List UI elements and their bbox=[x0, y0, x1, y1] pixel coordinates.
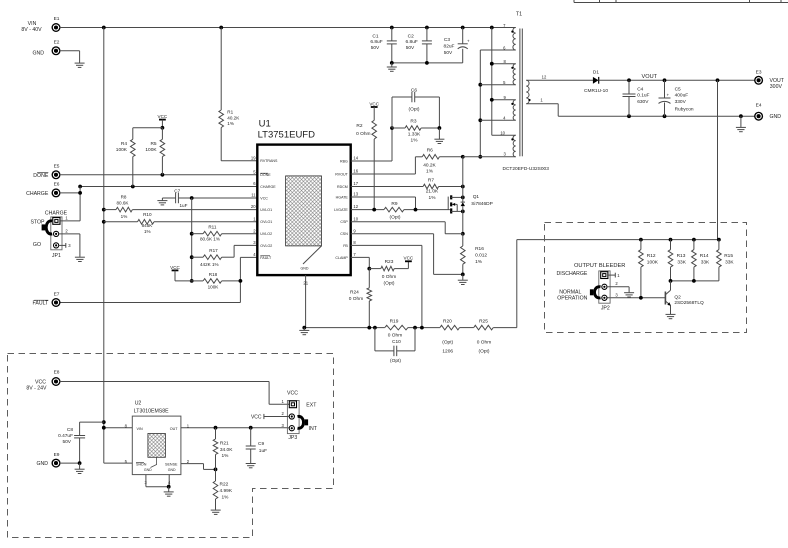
svg-text:50V: 50V bbox=[371, 45, 380, 51]
wire VIN rail bbox=[59, 26, 515, 30]
svg-text:6.8uF: 6.8uF bbox=[370, 39, 382, 45]
VCC symbol (R2) bbox=[369, 101, 379, 120]
svg-text:VCC: VCC bbox=[404, 256, 414, 261]
wire CSP jog bbox=[351, 222, 463, 234]
terminal E8 bbox=[26, 370, 60, 392]
svg-text:VCC: VCC bbox=[170, 265, 180, 270]
svg-text:EXT: EXT bbox=[306, 402, 317, 408]
resistor R6 bbox=[415, 148, 464, 175]
svg-text:2SD2568TLQ: 2SD2568TLQ bbox=[674, 300, 704, 306]
jumper shunt JP2 (pins 2-3) bbox=[590, 287, 601, 298]
svg-text:40.2K: 40.2K bbox=[227, 115, 240, 120]
jumper shunt JP3 (pins 2-3) bbox=[298, 416, 309, 428]
svg-text:VCC: VCC bbox=[251, 414, 262, 420]
svg-text:R19: R19 bbox=[390, 318, 399, 324]
resistor R16 bbox=[461, 234, 488, 276]
svg-text:SHDN: SHDN bbox=[136, 462, 147, 466]
resistor R8 bbox=[104, 194, 257, 219]
svg-text:VIN: VIN bbox=[137, 427, 143, 431]
capacitor C4 bbox=[623, 80, 650, 116]
ground (E2) bbox=[75, 63, 85, 67]
svg-text:JP3: JP3 bbox=[288, 435, 297, 441]
svg-text:R17: R17 bbox=[209, 248, 218, 253]
wire Q1 body diode and source bbox=[461, 197, 465, 235]
svg-text:VCC: VCC bbox=[260, 196, 268, 200]
wire bleeder bottom tie bbox=[669, 279, 719, 283]
svg-text:0 Ohm: 0 Ohm bbox=[477, 339, 491, 345]
resistor R25 bbox=[474, 318, 494, 354]
svg-text:OUTPUT BLEEDER: OUTPUT BLEEDER bbox=[574, 263, 625, 269]
svg-text:50V: 50V bbox=[444, 50, 453, 56]
svg-text:R1: R1 bbox=[227, 110, 233, 115]
capacitor C8 bbox=[58, 422, 104, 463]
ground (Q2) bbox=[666, 314, 676, 318]
svg-text:C2: C2 bbox=[408, 34, 414, 40]
U1 thermal pad bbox=[286, 176, 322, 271]
svg-text:0.1uF: 0.1uF bbox=[637, 93, 649, 99]
U1 right pin labels bbox=[334, 156, 359, 260]
svg-text:0 Ohm: 0 Ohm bbox=[356, 131, 370, 137]
svg-text:FAULT: FAULT bbox=[260, 256, 272, 260]
svg-text:CMR1U-10: CMR1U-10 bbox=[584, 88, 608, 94]
ground (JP1 pin2) bbox=[75, 257, 85, 261]
svg-text:R22: R22 bbox=[220, 482, 229, 488]
svg-text:Q2: Q2 bbox=[674, 295, 681, 301]
svg-text:GO: GO bbox=[33, 242, 41, 248]
svg-text:(Opt): (Opt) bbox=[384, 281, 395, 287]
jumper JP1 bbox=[30, 210, 67, 259]
wire bottom GND rail bbox=[302, 326, 516, 330]
op-amp U1 LT3751EUFD body bbox=[257, 119, 350, 276]
JP3 pin number labels bbox=[282, 399, 285, 428]
svg-text:0 Ohm: 0 Ohm bbox=[388, 333, 402, 339]
svg-text:E2: E2 bbox=[54, 40, 60, 46]
wire VIN vertical feed bbox=[102, 28, 132, 464]
svg-text:R11: R11 bbox=[208, 224, 217, 229]
ground (R16) bbox=[458, 274, 468, 284]
wire VOUT drop to bleeder bbox=[717, 80, 719, 239]
resistor R22 bbox=[213, 469, 233, 510]
svg-text:CSP: CSP bbox=[340, 220, 348, 224]
svg-text:R23: R23 bbox=[385, 259, 394, 265]
wire input caps bottom rail bbox=[390, 61, 463, 65]
svg-text:R4: R4 bbox=[121, 141, 127, 147]
svg-text:R5: R5 bbox=[150, 141, 156, 147]
wire FB drop bbox=[351, 245, 422, 327]
wire pullup top bbox=[133, 126, 165, 130]
ground (E4 rail) bbox=[736, 116, 746, 132]
svg-text:VCC: VCC bbox=[287, 391, 298, 397]
svg-text:E3: E3 bbox=[756, 69, 762, 75]
svg-text:C6: C6 bbox=[411, 87, 417, 93]
transistor Q2 bbox=[665, 281, 704, 314]
svg-text:14: 14 bbox=[353, 156, 358, 161]
svg-text:DONE: DONE bbox=[260, 173, 271, 177]
svg-text:16: 16 bbox=[353, 169, 358, 174]
svg-text:DCT20EFD-U32S003: DCT20EFD-U32S003 bbox=[503, 166, 550, 172]
resistor R10 bbox=[104, 212, 257, 234]
svg-text:C4: C4 bbox=[637, 87, 643, 93]
svg-text:0 Ohm: 0 Ohm bbox=[349, 296, 363, 302]
svg-text:Q1: Q1 bbox=[473, 194, 480, 200]
svg-text:LT3010EMS8E: LT3010EMS8E bbox=[134, 409, 169, 415]
wire CLAMP bbox=[351, 257, 371, 270]
wire JP1 pin1 bbox=[60, 216, 80, 221]
svg-text:442K 1%: 442K 1% bbox=[200, 262, 219, 267]
terminal E9 bbox=[36, 452, 60, 468]
svg-text:845K: 845K bbox=[142, 223, 154, 228]
resistor R2 bbox=[356, 120, 376, 209]
wire JP1 pin2 to ground bbox=[59, 229, 80, 257]
svg-text:UVLO1: UVLO1 bbox=[260, 208, 272, 212]
svg-text:11: 11 bbox=[251, 193, 256, 198]
wire DONE net bbox=[59, 173, 257, 177]
svg-text:JP2: JP2 bbox=[601, 306, 610, 312]
svg-text:E9: E9 bbox=[54, 452, 60, 458]
wire FAULT net bbox=[59, 257, 257, 302]
svg-text:R2: R2 bbox=[356, 123, 362, 129]
resistor R15 bbox=[717, 240, 735, 281]
svg-text:R3: R3 bbox=[410, 119, 416, 125]
svg-text:D1: D1 bbox=[593, 69, 599, 75]
svg-text:GND: GND bbox=[301, 267, 309, 271]
svg-text:40.2K: 40.2K bbox=[423, 163, 436, 169]
svg-text:C10: C10 bbox=[392, 339, 401, 345]
terminal E7 bbox=[33, 291, 61, 307]
svg-text:13: 13 bbox=[353, 192, 358, 197]
svg-text:RVTRANS: RVTRANS bbox=[260, 159, 278, 163]
svg-text:R9: R9 bbox=[391, 201, 397, 207]
diode D1 CMR1U-10 bbox=[584, 69, 608, 94]
svg-text:1%: 1% bbox=[475, 259, 483, 265]
wire JP2 pin2 to ground bbox=[607, 281, 629, 292]
svg-text:R20: R20 bbox=[443, 318, 452, 324]
resistor R11 bbox=[192, 224, 258, 241]
svg-text:OVLO2: OVLO2 bbox=[260, 244, 272, 248]
svg-text:300V: 300V bbox=[770, 84, 783, 90]
svg-text:21: 21 bbox=[303, 280, 308, 285]
output bleeder dashed box bbox=[545, 223, 747, 333]
svg-text:CHARGE: CHARGE bbox=[260, 185, 276, 189]
resistor R24 bbox=[349, 269, 372, 328]
wire U2 SENSE jog bbox=[181, 464, 218, 472]
svg-text:LVGATE: LVGATE bbox=[334, 208, 348, 212]
svg-text:E8: E8 bbox=[54, 370, 60, 376]
svg-text:C7: C7 bbox=[174, 188, 180, 193]
svg-text:1%: 1% bbox=[411, 138, 419, 144]
resistor R14 bbox=[692, 240, 710, 281]
svg-text:VCC: VCC bbox=[369, 101, 379, 106]
ground (C7) bbox=[157, 198, 167, 205]
capacitor C5 bbox=[659, 80, 694, 116]
svg-text:1uF: 1uF bbox=[259, 448, 267, 454]
svg-text:(Opt): (Opt) bbox=[390, 358, 401, 364]
svg-text:DISCHARGE: DISCHARGE bbox=[557, 271, 588, 277]
transformer T1 windings and core bbox=[500, 12, 549, 173]
wire Q2 base row bbox=[607, 296, 666, 300]
svg-text:10: 10 bbox=[500, 131, 505, 136]
capacitor C2 bbox=[406, 28, 432, 63]
svg-text:R7: R7 bbox=[428, 178, 434, 184]
U1 left pin labels bbox=[251, 155, 278, 259]
svg-text:100K: 100K bbox=[145, 147, 157, 153]
svg-text:R21: R21 bbox=[220, 440, 229, 446]
svg-text:(Opt): (Opt) bbox=[479, 348, 490, 354]
svg-text:INT: INT bbox=[309, 426, 318, 432]
svg-text:UVLO2: UVLO2 bbox=[260, 232, 272, 236]
svg-text:Rubycon: Rubycon bbox=[675, 107, 694, 113]
svg-text:33K: 33K bbox=[677, 260, 686, 266]
svg-text:C5: C5 bbox=[675, 87, 681, 93]
wire bleeder top node bbox=[639, 238, 721, 242]
svg-text:21.0K: 21.0K bbox=[426, 188, 439, 194]
resistor R12 bbox=[639, 240, 659, 298]
wire divider riser to bleeder bbox=[517, 240, 719, 328]
wire output GND rail bbox=[558, 114, 755, 118]
jumper JP3 bbox=[287, 391, 318, 441]
terminal E6 bbox=[26, 181, 60, 197]
jumper shunt JP1 (pins 1-2) bbox=[42, 221, 53, 234]
svg-text:OVLO1: OVLO1 bbox=[260, 220, 272, 224]
wire JP1 pin3 stub bbox=[59, 243, 72, 248]
svg-text:82uF: 82uF bbox=[444, 44, 455, 50]
ground (input caps) bbox=[387, 63, 397, 71]
svg-text:1206: 1206 bbox=[442, 348, 453, 354]
svg-text:JP1: JP1 bbox=[52, 253, 61, 259]
regulator U2 LT3010EMS8E body bbox=[132, 401, 181, 475]
svg-text:0 Ohm: 0 Ohm bbox=[382, 274, 396, 280]
svg-text:GND: GND bbox=[144, 468, 152, 472]
wire CHARGE net bbox=[59, 185, 257, 221]
svg-text:C8: C8 bbox=[67, 427, 73, 433]
svg-text:R25: R25 bbox=[479, 318, 488, 324]
svg-text:80.6K 1%: 80.6K 1% bbox=[200, 236, 220, 241]
terminal E3 bbox=[754, 69, 785, 90]
resistor R23 bbox=[369, 259, 408, 287]
capacitor C6 bbox=[392, 87, 439, 128]
svg-text:80.6K: 80.6K bbox=[116, 201, 129, 206]
svg-text:4.99K: 4.99K bbox=[220, 488, 233, 494]
svg-text:17: 17 bbox=[353, 181, 358, 186]
svg-text:100K: 100K bbox=[116, 147, 128, 153]
resistor R1 bbox=[219, 28, 257, 161]
terminal E1 bbox=[21, 16, 60, 33]
resistor R20 bbox=[440, 318, 460, 354]
resistor R18 bbox=[192, 272, 241, 290]
svg-text:R15: R15 bbox=[724, 253, 733, 259]
wire CSN jog bbox=[351, 234, 463, 275]
svg-text:0.47uF: 0.47uF bbox=[58, 433, 73, 439]
wire Q1 drain bbox=[462, 157, 464, 198]
resistor R3 bbox=[392, 119, 441, 144]
svg-text:50V: 50V bbox=[62, 439, 71, 445]
svg-text:RBG: RBG bbox=[340, 159, 348, 163]
resistor R9 bbox=[351, 201, 450, 220]
svg-text:400uF: 400uF bbox=[675, 93, 689, 99]
svg-text:R12: R12 bbox=[647, 253, 656, 259]
svg-text:LT3751EUFD: LT3751EUFD bbox=[258, 130, 316, 141]
svg-text:33K: 33K bbox=[725, 260, 734, 266]
svg-text:SENSE: SENSE bbox=[165, 462, 178, 466]
svg-text:GND: GND bbox=[770, 114, 782, 120]
wire E9 row bbox=[59, 461, 81, 465]
ground (U2) bbox=[164, 487, 174, 497]
svg-text:R18: R18 bbox=[209, 272, 218, 277]
wire VOUT rail bbox=[599, 74, 756, 82]
wire RBG to R3 bbox=[351, 126, 394, 161]
svg-text:1%: 1% bbox=[227, 121, 234, 126]
svg-text:GND: GND bbox=[36, 461, 48, 467]
svg-text:OUT: OUT bbox=[170, 427, 179, 431]
wire VCC pin 11 bbox=[178, 196, 257, 200]
wire JP3 pin2 VCC tap bbox=[251, 414, 289, 421]
svg-text:FAULT: FAULT bbox=[33, 301, 50, 307]
VCC regulator dashed box bbox=[8, 354, 334, 538]
svg-text:VOUT: VOUT bbox=[642, 74, 658, 80]
resistor R13 bbox=[668, 240, 687, 281]
svg-text:T1: T1 bbox=[516, 12, 522, 18]
svg-text:1%: 1% bbox=[222, 453, 230, 459]
wire E8 to JP3 EXT bbox=[59, 382, 289, 405]
svg-text:0.012: 0.012 bbox=[475, 253, 487, 259]
ground (R3) bbox=[434, 128, 444, 144]
svg-text:330V: 330V bbox=[675, 99, 687, 105]
svg-text:GND: GND bbox=[168, 468, 176, 472]
ground (U1 GND rail) bbox=[299, 328, 309, 335]
capacitor C10 bbox=[375, 328, 415, 364]
capacitor C1 bbox=[370, 28, 396, 63]
svg-text:HGATE: HGATE bbox=[336, 195, 349, 199]
svg-text:1uF: 1uF bbox=[180, 203, 188, 208]
svg-text:20: 20 bbox=[251, 204, 256, 209]
transformer T1 primary leads bbox=[463, 28, 516, 159]
ground (R22) bbox=[211, 510, 221, 514]
svg-text:RDCM: RDCM bbox=[337, 185, 348, 189]
svg-text:1.33K: 1.33K bbox=[408, 131, 421, 137]
svg-text:RVOUT: RVOUT bbox=[335, 172, 348, 176]
svg-text:CSN: CSN bbox=[340, 232, 348, 236]
svg-text:(Opt): (Opt) bbox=[442, 339, 453, 345]
svg-text:CHARGE: CHARGE bbox=[26, 191, 49, 197]
svg-text:12: 12 bbox=[542, 74, 547, 79]
resistor R7 bbox=[351, 178, 465, 201]
wire E2 to ground bbox=[59, 51, 79, 63]
svg-text:R24: R24 bbox=[350, 289, 359, 295]
resistor R19 bbox=[385, 318, 408, 338]
wire HGATE tie bbox=[351, 197, 416, 210]
svg-text:E1: E1 bbox=[54, 16, 60, 22]
capacitor C9 bbox=[246, 428, 267, 464]
capacitor C7 bbox=[162, 188, 187, 208]
svg-text:1%: 1% bbox=[121, 214, 128, 219]
VCC symbol (R23) bbox=[404, 256, 414, 262]
wire JP2 pin1 stub bbox=[608, 273, 620, 278]
svg-text:R14: R14 bbox=[700, 253, 709, 259]
svg-text:1%: 1% bbox=[222, 495, 230, 501]
svg-text:C9: C9 bbox=[258, 441, 264, 447]
wire U2 GND pins 3 and 4 bbox=[146, 475, 171, 489]
VCC symbol (R18) bbox=[170, 265, 192, 281]
svg-text:10: 10 bbox=[353, 216, 358, 221]
ground (C9) bbox=[246, 464, 256, 468]
svg-text:R10: R10 bbox=[143, 212, 152, 217]
svg-text:R6: R6 bbox=[427, 148, 433, 154]
terminal E5 bbox=[33, 163, 60, 179]
svg-text:C3: C3 bbox=[444, 37, 450, 43]
terminal E4 bbox=[754, 102, 781, 120]
svg-text:C1: C1 bbox=[372, 34, 378, 40]
svg-text:U1: U1 bbox=[259, 119, 271, 130]
capacitor C3 bbox=[444, 28, 470, 63]
svg-text:E7: E7 bbox=[54, 291, 60, 297]
svg-text:E4: E4 bbox=[756, 102, 762, 108]
svg-text:OPERATION: OPERATION bbox=[557, 296, 587, 302]
ground (JP2 pin2) bbox=[624, 293, 634, 297]
wire JP2 pin3 label bbox=[615, 292, 618, 297]
resistor R5 bbox=[145, 128, 164, 175]
resistor R4 bbox=[116, 128, 135, 187]
U1 GND pin 21 bbox=[303, 275, 308, 328]
svg-text:1%: 1% bbox=[429, 195, 437, 201]
svg-text:DONE: DONE bbox=[33, 173, 49, 179]
svg-text:E5: E5 bbox=[54, 163, 60, 169]
VCC symbol (pullups) bbox=[158, 114, 168, 128]
wire VCC net vertical bbox=[190, 198, 194, 283]
svg-text:CHARGE: CHARGE bbox=[45, 210, 68, 216]
svg-text:8V - 24V: 8V - 24V bbox=[26, 386, 47, 392]
svg-text:CLAMP: CLAMP bbox=[335, 256, 348, 260]
resistor R21 bbox=[213, 428, 233, 470]
svg-text:630V: 630V bbox=[637, 99, 649, 105]
svg-text:34.0K: 34.0K bbox=[220, 447, 233, 453]
U2 thermal pad bbox=[148, 434, 166, 468]
svg-text:U2: U2 bbox=[135, 401, 142, 407]
svg-text:VCC: VCC bbox=[158, 114, 168, 119]
jumper JP2 bbox=[557, 263, 626, 312]
svg-text:100K: 100K bbox=[208, 285, 220, 290]
svg-text:R13: R13 bbox=[677, 253, 686, 259]
transformer T1 secondary leads bbox=[526, 74, 593, 116]
svg-text:19: 19 bbox=[251, 155, 256, 160]
svg-text:+: + bbox=[467, 38, 470, 43]
svg-text:GND: GND bbox=[32, 50, 44, 56]
svg-text:33K: 33K bbox=[701, 260, 710, 266]
svg-text:VIN: VIN bbox=[28, 21, 37, 27]
wire RVOUT jog bbox=[351, 157, 416, 174]
U2 pin labels bbox=[125, 423, 190, 484]
svg-text:12: 12 bbox=[353, 204, 358, 209]
svg-text:1%: 1% bbox=[426, 169, 434, 175]
svg-text:R16: R16 bbox=[475, 246, 484, 252]
svg-text:FB: FB bbox=[343, 244, 348, 248]
svg-text:Si7846DP: Si7846DP bbox=[471, 201, 493, 207]
svg-text:1%: 1% bbox=[144, 229, 151, 234]
ground (E9/C8) bbox=[75, 463, 85, 473]
svg-text:6.8uF: 6.8uF bbox=[406, 39, 418, 45]
transistor Q1 Si7846DP bbox=[448, 194, 493, 214]
svg-text:(Opt): (Opt) bbox=[409, 107, 420, 113]
svg-text:50V: 50V bbox=[406, 45, 415, 51]
wire U2 OUT row bbox=[181, 426, 289, 430]
resistor R17 bbox=[192, 245, 258, 267]
svg-text:8V - 40V: 8V - 40V bbox=[21, 27, 42, 33]
terminal E2 bbox=[32, 40, 60, 57]
svg-text:100K: 100K bbox=[647, 260, 659, 266]
svg-text:(Opt): (Opt) bbox=[390, 214, 401, 220]
svg-text:R8: R8 bbox=[121, 194, 127, 199]
svg-text:E6: E6 bbox=[54, 181, 60, 187]
